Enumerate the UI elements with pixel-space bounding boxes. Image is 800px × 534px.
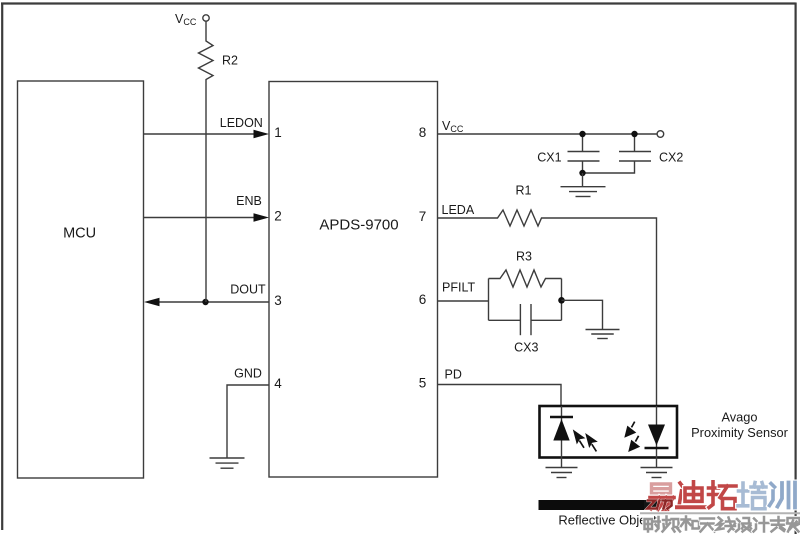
svg-text:3: 3: [274, 293, 282, 308]
svg-text:7: 7: [419, 209, 427, 224]
svg-text:LEDA: LEDA: [442, 203, 475, 217]
svg-text:CX2: CX2: [659, 151, 683, 165]
svg-text:Avago: Avago: [721, 410, 757, 425]
svg-text:PD: PD: [445, 368, 462, 382]
svg-text:GND: GND: [234, 366, 262, 380]
svg-text:MCU: MCU: [63, 226, 96, 242]
svg-text:APDS-9700: APDS-9700: [319, 217, 398, 234]
svg-text:R3: R3: [516, 250, 532, 264]
svg-text:R1: R1: [516, 184, 532, 198]
svg-text:CX1: CX1: [537, 151, 561, 165]
svg-text:4: 4: [274, 376, 282, 391]
svg-text:2: 2: [274, 209, 282, 224]
svg-text:6: 6: [419, 292, 427, 307]
svg-text:Proximity Sensor: Proximity Sensor: [691, 425, 788, 440]
svg-text:LEDON: LEDON: [220, 116, 263, 130]
svg-text:Reflective Object: Reflective Object: [558, 513, 657, 528]
svg-text:R2: R2: [222, 54, 238, 68]
svg-text:DOUT: DOUT: [230, 282, 266, 296]
svg-text:1: 1: [274, 125, 282, 140]
svg-text:PFILT: PFILT: [442, 281, 475, 295]
svg-text:CX3: CX3: [514, 341, 538, 355]
svg-text:8: 8: [419, 125, 427, 140]
svg-text:5: 5: [419, 376, 427, 391]
svg-text:ENB: ENB: [236, 194, 262, 208]
